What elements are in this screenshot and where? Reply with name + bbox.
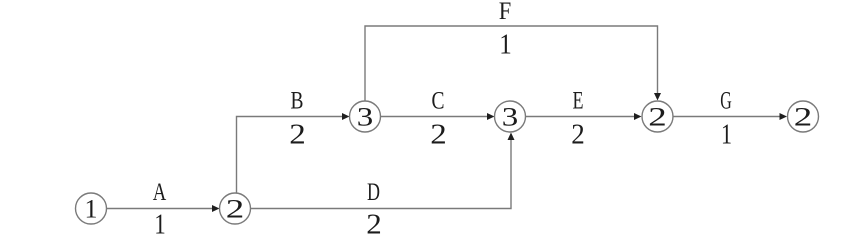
svg-text:3: 3 bbox=[357, 103, 374, 132]
svg-text:2: 2 bbox=[571, 120, 585, 151]
svg-text:1: 1 bbox=[154, 210, 166, 241]
svg-text:2: 2 bbox=[648, 103, 667, 132]
svg-text:E: E bbox=[573, 88, 584, 115]
svg-text:1: 1 bbox=[85, 195, 98, 224]
svg-text:1: 1 bbox=[499, 30, 512, 61]
svg-text:A: A bbox=[153, 179, 167, 206]
svg-text:C: C bbox=[432, 88, 445, 115]
svg-text:D: D bbox=[367, 179, 380, 206]
svg-text:3: 3 bbox=[502, 103, 519, 132]
svg-text:2: 2 bbox=[794, 103, 813, 132]
svg-text:F: F bbox=[499, 0, 512, 25]
svg-text:2: 2 bbox=[366, 210, 382, 241]
svg-text:2: 2 bbox=[226, 195, 245, 224]
svg-text:2: 2 bbox=[430, 120, 447, 151]
svg-text:G: G bbox=[720, 88, 732, 115]
svg-text:2: 2 bbox=[289, 120, 306, 151]
svg-text:1: 1 bbox=[721, 120, 732, 151]
svg-text:B: B bbox=[291, 88, 304, 115]
